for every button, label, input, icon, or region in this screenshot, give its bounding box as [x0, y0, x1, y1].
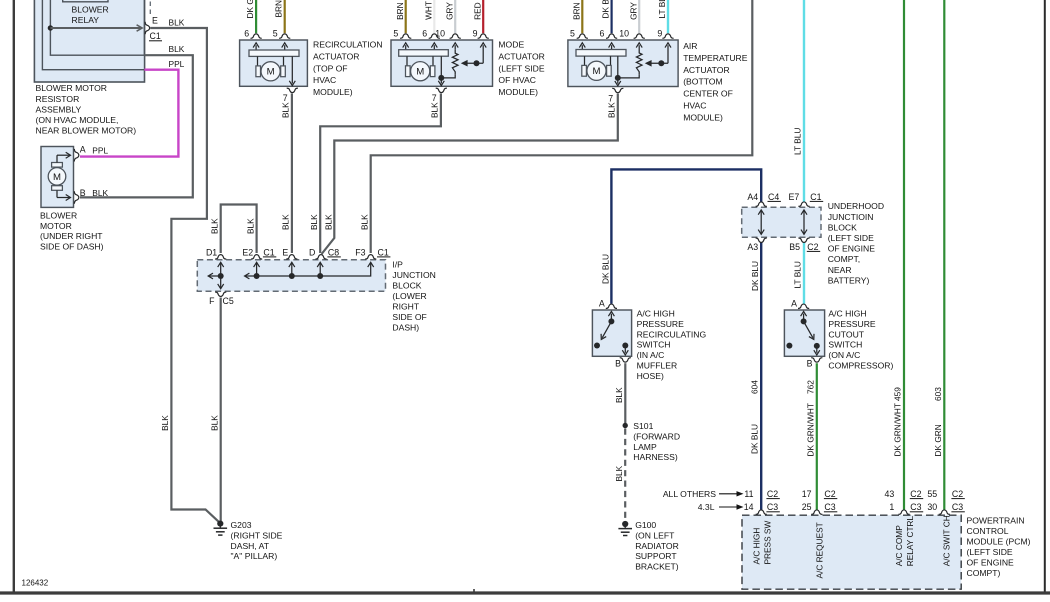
- svg-text:A: A: [791, 299, 797, 309]
- internal bus rail E2-E-D-F3: [246, 263, 371, 276]
- wire E BLK from relay to I/P ground run: [150, 28, 219, 522]
- svg-text:MODULE (PCM): MODULE (PCM): [967, 537, 1031, 547]
- mode motor: [406, 56, 408, 65]
- svg-text:PRESSURE: PRESSURE: [828, 319, 876, 329]
- svg-text:A: A: [80, 144, 86, 154]
- svg-text:BLK: BLK: [281, 214, 291, 230]
- svg-text:C3: C3: [767, 502, 778, 512]
- blower motor box: [41, 147, 74, 208]
- pin A connector: [74, 149, 79, 162]
- wire BRN into mode pin 5: [405, 0, 407, 33]
- svg-text:BLK: BLK: [359, 214, 369, 230]
- svg-text:COMPT): COMPT): [967, 568, 1001, 578]
- svg-text:(RIGHT SIDE: (RIGHT SIDE: [231, 530, 283, 540]
- ground G100: [622, 521, 628, 527]
- pin B connector: [74, 191, 79, 204]
- page bottom border: [0, 591, 1050, 594]
- svg-text:WHT: WHT: [424, 1, 434, 20]
- right contact dot to pin B: [814, 343, 820, 349]
- bottom border tick: [473, 589, 475, 593]
- svg-text:JUNCTIOIN: JUNCTIOIN: [828, 212, 874, 222]
- svg-text:10: 10: [435, 29, 445, 39]
- svg-text:BLK: BLK: [209, 415, 219, 431]
- svg-text:AIR: AIR: [683, 41, 697, 51]
- wire LT BLU into air temp pin 9: [667, 0, 669, 33]
- svg-text:BRACKET): BRACKET): [635, 562, 679, 572]
- pin 7 exit: [291, 56, 293, 83]
- svg-text:PRESS SW: PRESS SW: [762, 521, 772, 565]
- svg-text:COMPRESSOR): COMPRESSOR): [828, 361, 893, 371]
- svg-text:30: 30: [927, 502, 937, 512]
- svg-text:BLK: BLK: [281, 102, 291, 118]
- wire DK GRN/WHT cutout B to PCM 17/25: [816, 363, 818, 509]
- svg-text:MODULE): MODULE): [313, 87, 353, 97]
- mode feedback resistor: [452, 50, 458, 75]
- resistor to pin7 elbow: [441, 74, 455, 78]
- svg-text:(BOTTOM: (BOTTOM: [683, 77, 722, 87]
- wire DK GRN/WHT from top to PCM 43/1: [903, 0, 905, 510]
- air temp slider bar: [576, 50, 626, 57]
- svg-text:(LEFT SIDE: (LEFT SIDE: [828, 233, 874, 243]
- A/C high pressure cutout switch box: [784, 310, 824, 356]
- svg-text:LT BLU: LT BLU: [657, 0, 667, 19]
- svg-text:DK BLU: DK BLU: [600, 254, 610, 284]
- blower motor internal wiring pin A: [57, 154, 70, 156]
- svg-text:(ON LEFT: (ON LEFT: [635, 530, 675, 540]
- svg-text:G203: G203: [231, 520, 252, 530]
- splice S101: [623, 423, 628, 428]
- svg-text:BLK: BLK: [607, 102, 617, 118]
- svg-text:HVAC: HVAC: [313, 75, 336, 85]
- svg-text:C1: C1: [150, 31, 161, 41]
- wire BLK I/P pin F to G203: [220, 298, 222, 522]
- svg-text:RADIATOR: RADIATOR: [635, 541, 679, 551]
- svg-text:SIDE OF: SIDE OF: [392, 312, 426, 322]
- pin 7 exit: [617, 56, 619, 83]
- svg-text:(LEFT SIDE: (LEFT SIDE: [967, 547, 1013, 557]
- switch common arrow to pin A: [803, 314, 805, 322]
- svg-text:BLOCK: BLOCK: [392, 281, 421, 291]
- svg-text:A3: A3: [747, 242, 758, 252]
- svg-text:SWITCH: SWITCH: [637, 340, 671, 350]
- svg-text:GRY: GRY: [445, 2, 455, 20]
- svg-text:G100: G100: [635, 520, 656, 530]
- svg-text:I/P: I/P: [392, 259, 403, 269]
- inner assembly box: [42, 0, 144, 70]
- svg-text:C2: C2: [952, 489, 963, 499]
- svg-text:C2: C2: [910, 489, 921, 499]
- svg-text:NEAR: NEAR: [828, 265, 852, 275]
- svg-text:C1: C1: [263, 247, 274, 257]
- svg-text:MODULE): MODULE): [498, 87, 538, 97]
- wiper junction dot: [658, 60, 664, 66]
- svg-text:BLK: BLK: [92, 188, 108, 198]
- svg-text:C1: C1: [378, 247, 389, 257]
- svg-text:14: 14: [744, 502, 754, 512]
- svg-text:DK GRN: DK GRN: [245, 0, 255, 19]
- svg-text:M: M: [53, 172, 61, 183]
- svg-text:C3: C3: [952, 502, 963, 512]
- svg-text:ASSEMBLY: ASSEMBLY: [36, 104, 82, 114]
- svg-text:E2: E2: [242, 247, 253, 257]
- svg-text:(ON HVAC MODULE,: (ON HVAC MODULE,: [36, 115, 119, 125]
- svg-text:BLK: BLK: [210, 218, 220, 234]
- svg-text:C2: C2: [824, 489, 835, 499]
- wire DK BLU switch A to underhood A4: [611, 169, 761, 303]
- svg-text:11: 11: [744, 489, 753, 499]
- svg-text:BLOCK: BLOCK: [828, 222, 857, 232]
- svg-text:OF HVAC: OF HVAC: [498, 75, 536, 85]
- svg-text:C2: C2: [807, 242, 818, 252]
- A/C high pressure recirculating switch box: [592, 310, 631, 356]
- air temp feedback resistor: [636, 50, 642, 75]
- wire BLK air pin7 to I/P pin C8: [322, 94, 618, 254]
- through arrows: [760, 210, 762, 234]
- svg-text:(TOP OF: (TOP OF: [313, 63, 348, 73]
- svg-text:SIDE OF DASH): SIDE OF DASH): [40, 242, 104, 252]
- wiper junction dot: [474, 60, 480, 66]
- blower relay box: [50, 0, 144, 55]
- svg-text:5: 5: [570, 29, 575, 39]
- svg-text:GRY: GRY: [628, 2, 638, 20]
- svg-text:POWERTRAIN: POWERTRAIN: [967, 516, 1025, 526]
- svg-text:BLOWER MOTOR: BLOWER MOTOR: [36, 83, 107, 93]
- svg-text:BLK: BLK: [169, 44, 185, 54]
- svg-text:5: 5: [273, 29, 278, 39]
- svg-text:5: 5: [393, 29, 398, 39]
- svg-text:BLK: BLK: [160, 415, 170, 431]
- svg-text:OF ENGINE: OF ENGINE: [828, 244, 876, 254]
- svg-text:UNDERHOOD: UNDERHOOD: [828, 201, 884, 211]
- svg-text:E: E: [152, 15, 158, 25]
- svg-text:BLK: BLK: [323, 214, 333, 230]
- pin 7 exit: [440, 56, 442, 83]
- svg-text:55: 55: [927, 489, 937, 499]
- svg-text:RIGHT: RIGHT: [392, 302, 419, 312]
- svg-text:DK BLU: DK BLU: [601, 0, 611, 19]
- relay contact box (cut off at top): [63, 0, 108, 2]
- wire LT BLU from top to underhood E7: [803, 0, 805, 202]
- wire LT BLU underhood B5 to cutout switch A: [803, 242, 805, 303]
- svg-text:A/C HIGH: A/C HIGH: [828, 309, 866, 319]
- svg-text:6: 6: [422, 29, 427, 39]
- svg-text:604: 604: [750, 380, 760, 394]
- pin E connector: [145, 22, 150, 35]
- svg-text:E: E: [282, 247, 288, 257]
- mode actuator box: [391, 40, 493, 86]
- svg-text:459: 459: [893, 387, 903, 401]
- wire BLK mode pin7 to I/P pin D: [320, 93, 441, 253]
- svg-text:7: 7: [283, 93, 288, 103]
- svg-text:TEMPERATURE: TEMPERATURE: [683, 53, 748, 63]
- svg-text:9: 9: [473, 29, 478, 39]
- pin 7 junction dot: [438, 75, 444, 81]
- wire PPL assembly to blower motor A: [80, 70, 178, 157]
- svg-text:DASH, AT: DASH, AT: [231, 541, 270, 551]
- wire RED into mode pin 9: [482, 0, 484, 33]
- dashed box remnant above pin E: [149, 2, 151, 15]
- svg-text:RECIRCULATION: RECIRCULATION: [313, 40, 383, 50]
- svg-text:(ON A/C: (ON A/C: [828, 350, 860, 360]
- svg-text:D1: D1: [206, 247, 217, 257]
- PCM pin connectors: [756, 510, 767, 514]
- ground G203: [217, 521, 223, 527]
- switch common arrow to pin A: [610, 314, 612, 322]
- svg-text:9: 9: [657, 29, 662, 39]
- svg-text:6: 6: [599, 29, 604, 39]
- svg-text:CUTOUT: CUTOUT: [828, 329, 864, 339]
- svg-text:OF ENGINE: OF ENGINE: [967, 558, 1015, 568]
- svg-text:BLK: BLK: [309, 214, 319, 230]
- svg-text:126432: 126432: [22, 579, 49, 588]
- svg-text:MUFFLER: MUFFLER: [637, 361, 678, 371]
- svg-text:7: 7: [608, 93, 613, 103]
- svg-text:BRN: BRN: [395, 2, 405, 20]
- svg-text:PPL: PPL: [169, 59, 185, 69]
- svg-text:762: 762: [806, 380, 816, 394]
- relay junction dot: [48, 25, 53, 30]
- switch blade (closed toward B): [804, 321, 813, 337]
- svg-text:ALL OTHERS: ALL OTHERS: [663, 489, 716, 499]
- svg-text:A/C HIGH: A/C HIGH: [637, 309, 675, 319]
- wire BRN into air temp pin 5: [581, 0, 583, 33]
- svg-text:C4: C4: [768, 192, 779, 202]
- svg-text:JUNCTION: JUNCTION: [392, 270, 435, 280]
- wire GRY into mode pin 10: [454, 0, 456, 33]
- svg-text:BLOWER: BLOWER: [72, 5, 109, 15]
- page left border: [13, 0, 15, 594]
- svg-text:DK GRN/WHT: DK GRN/WHT: [806, 403, 816, 456]
- svg-text:ACTUATOR: ACTUATOR: [313, 51, 359, 61]
- wire BLK switch B to S101: [624, 363, 626, 423]
- svg-text:RELAY: RELAY: [72, 15, 100, 25]
- svg-text:D: D: [309, 247, 315, 257]
- svg-text:BRN: BRN: [572, 2, 582, 20]
- svg-text:COMPT,: COMPT,: [828, 254, 860, 264]
- switch blade (open): [602, 321, 611, 337]
- svg-text:BLK: BLK: [614, 387, 624, 403]
- svg-text:MODULE): MODULE): [683, 112, 723, 122]
- svg-text:(IN A/C: (IN A/C: [637, 350, 665, 360]
- wire DK GRN from top to PCM 55/30: [943, 0, 945, 510]
- svg-text:M: M: [267, 67, 275, 78]
- svg-text:ACTUATOR: ACTUATOR: [498, 51, 544, 61]
- svg-text:E7: E7: [789, 192, 800, 202]
- svg-text:C8: C8: [328, 247, 339, 257]
- svg-text:A/C COMP: A/C COMP: [894, 525, 904, 566]
- D1 bus: vertical through-arrow: [220, 263, 222, 289]
- svg-text:DASH): DASH): [392, 323, 419, 333]
- wire BLK from top to I/P pin F3: [371, 0, 753, 253]
- svg-text:(FORWARD: (FORWARD: [633, 431, 680, 441]
- svg-text:BLK: BLK: [246, 218, 256, 234]
- wire DK GRN into recirc pin 6: [255, 0, 257, 33]
- blower motor internal wiring pin B: [56, 191, 58, 198]
- svg-text:C2: C2: [767, 489, 778, 499]
- svg-text:SWITCH: SWITCH: [828, 340, 862, 350]
- svg-text:C5: C5: [223, 296, 234, 306]
- svg-text:NEAR BLOWER MOTOR): NEAR BLOWER MOTOR): [36, 125, 137, 135]
- left contact dot: [786, 343, 792, 349]
- I/P junction block: [197, 260, 385, 291]
- recirc motor: [257, 56, 259, 65]
- wire BLK relay bottom to blower motor B: [80, 55, 193, 197]
- svg-text:DK BLU: DK BLU: [750, 424, 760, 454]
- recirc slider bar: [249, 50, 299, 56]
- page right border: [1044, 0, 1046, 594]
- resistor to pin7 elbow: [618, 74, 639, 78]
- svg-text:C3: C3: [824, 502, 835, 512]
- svg-text:LAMP: LAMP: [633, 442, 657, 452]
- svg-text:17: 17: [802, 489, 812, 499]
- wire BLK jumper D1 to E2: [221, 205, 257, 254]
- svg-text:B: B: [80, 188, 86, 198]
- svg-text:DK GRN: DK GRN: [933, 424, 943, 456]
- svg-text:PRESSURE: PRESSURE: [637, 319, 685, 329]
- svg-text:LT BLU: LT BLU: [793, 128, 803, 155]
- svg-text:10: 10: [619, 29, 629, 39]
- svg-text:BLK: BLK: [169, 18, 185, 28]
- blower motor resistor assembly box: [34, 0, 144, 82]
- rail up-arrows: [256, 263, 258, 276]
- svg-text:RECIRCULATING: RECIRCULATING: [637, 329, 707, 339]
- svg-text:SUPPORT: SUPPORT: [635, 551, 677, 561]
- pin 7 junction dot: [615, 75, 621, 81]
- svg-text:CENTER OF: CENTER OF: [683, 89, 733, 99]
- svg-text:1: 1: [889, 502, 894, 512]
- svg-text:A/C HIGH: A/C HIGH: [751, 528, 761, 565]
- svg-text:MODE: MODE: [498, 40, 524, 50]
- svg-text:LT BLU: LT BLU: [793, 261, 803, 288]
- svg-text:A4: A4: [747, 192, 758, 202]
- wire DK BLU underhood A3 to PCM pin 11/14: [760, 242, 762, 509]
- svg-text:PPL: PPL: [92, 146, 108, 156]
- svg-text:(UNDER RIGHT: (UNDER RIGHT: [40, 231, 103, 241]
- svg-text:7: 7: [432, 93, 437, 103]
- right contact dot to pin B: [622, 343, 628, 349]
- underhood junction block: [742, 207, 821, 237]
- svg-text:43: 43: [885, 489, 895, 499]
- svg-text:BRN: BRN: [273, 0, 283, 18]
- wiper arm: [650, 62, 669, 64]
- svg-text:C1: C1: [810, 192, 821, 202]
- recirculation actuator box: [240, 40, 308, 86]
- svg-text:A/C SWIT CH: A/C SWIT CH: [941, 515, 951, 566]
- svg-text:RELAY CTRL: RELAY CTRL: [905, 516, 915, 567]
- mode slider bar: [399, 50, 449, 57]
- svg-text:M: M: [416, 67, 424, 78]
- svg-text:CONTROL: CONTROL: [967, 526, 1009, 536]
- svg-text:DK BLU: DK BLU: [750, 261, 760, 291]
- svg-text:DK GRN/WHT: DK GRN/WHT: [893, 403, 903, 456]
- wire BRN into recirc pin 5: [284, 0, 286, 33]
- svg-text:S101: S101: [633, 421, 653, 431]
- svg-text:(LEFT SIDE: (LEFT SIDE: [498, 63, 544, 73]
- svg-text:BLK: BLK: [430, 102, 440, 118]
- wire GRY into air temp pin 10: [638, 0, 640, 33]
- svg-text:C3: C3: [910, 502, 921, 512]
- svg-text:603: 603: [933, 387, 943, 401]
- svg-text:B: B: [807, 358, 813, 368]
- svg-text:BATTERY): BATTERY): [828, 275, 870, 285]
- wire BLK recirc pin7 to I/P pin E: [291, 93, 293, 253]
- svg-text:RESISTOR: RESISTOR: [36, 94, 80, 104]
- svg-text:BLK: BLK: [614, 465, 624, 481]
- svg-text:B: B: [615, 358, 621, 368]
- svg-text:HARNESS): HARNESS): [633, 452, 678, 462]
- svg-text:RED: RED: [473, 2, 483, 20]
- svg-text:BLOWER: BLOWER: [40, 211, 77, 221]
- svg-text:HOSE): HOSE): [637, 371, 664, 381]
- svg-text:25: 25: [802, 502, 812, 512]
- left contact dot: [594, 343, 600, 349]
- relay output wire to pin E: [50, 27, 140, 29]
- svg-text:F3: F3: [355, 247, 365, 257]
- wire WHT into mode pin 6: [433, 0, 435, 33]
- svg-text:4.3L: 4.3L: [698, 502, 715, 512]
- svg-text:M: M: [593, 66, 601, 77]
- blower motor symbol: [48, 168, 66, 186]
- svg-text:ACTUATOR: ACTUATOR: [683, 65, 729, 75]
- svg-text:F: F: [209, 296, 215, 306]
- wire DK BLU into air temp pin 6: [610, 0, 612, 33]
- svg-text:B5: B5: [789, 242, 800, 252]
- svg-text:(LOWER: (LOWER: [392, 291, 426, 301]
- svg-text:MOTOR: MOTOR: [40, 221, 72, 231]
- svg-text:A/C REQUEST: A/C REQUEST: [814, 522, 824, 578]
- PCM box: [742, 515, 961, 589]
- svg-text:A: A: [599, 299, 605, 309]
- wiper arm: [466, 62, 484, 64]
- svg-text:HVAC: HVAC: [683, 101, 706, 111]
- air temp motor: [584, 56, 586, 65]
- svg-text:6: 6: [244, 29, 249, 39]
- air temperature actuator box: [568, 40, 678, 87]
- svg-text:"A" PILLAR): "A" PILLAR): [231, 551, 278, 561]
- dashed wire BLK S101 to G100: [624, 429, 626, 522]
